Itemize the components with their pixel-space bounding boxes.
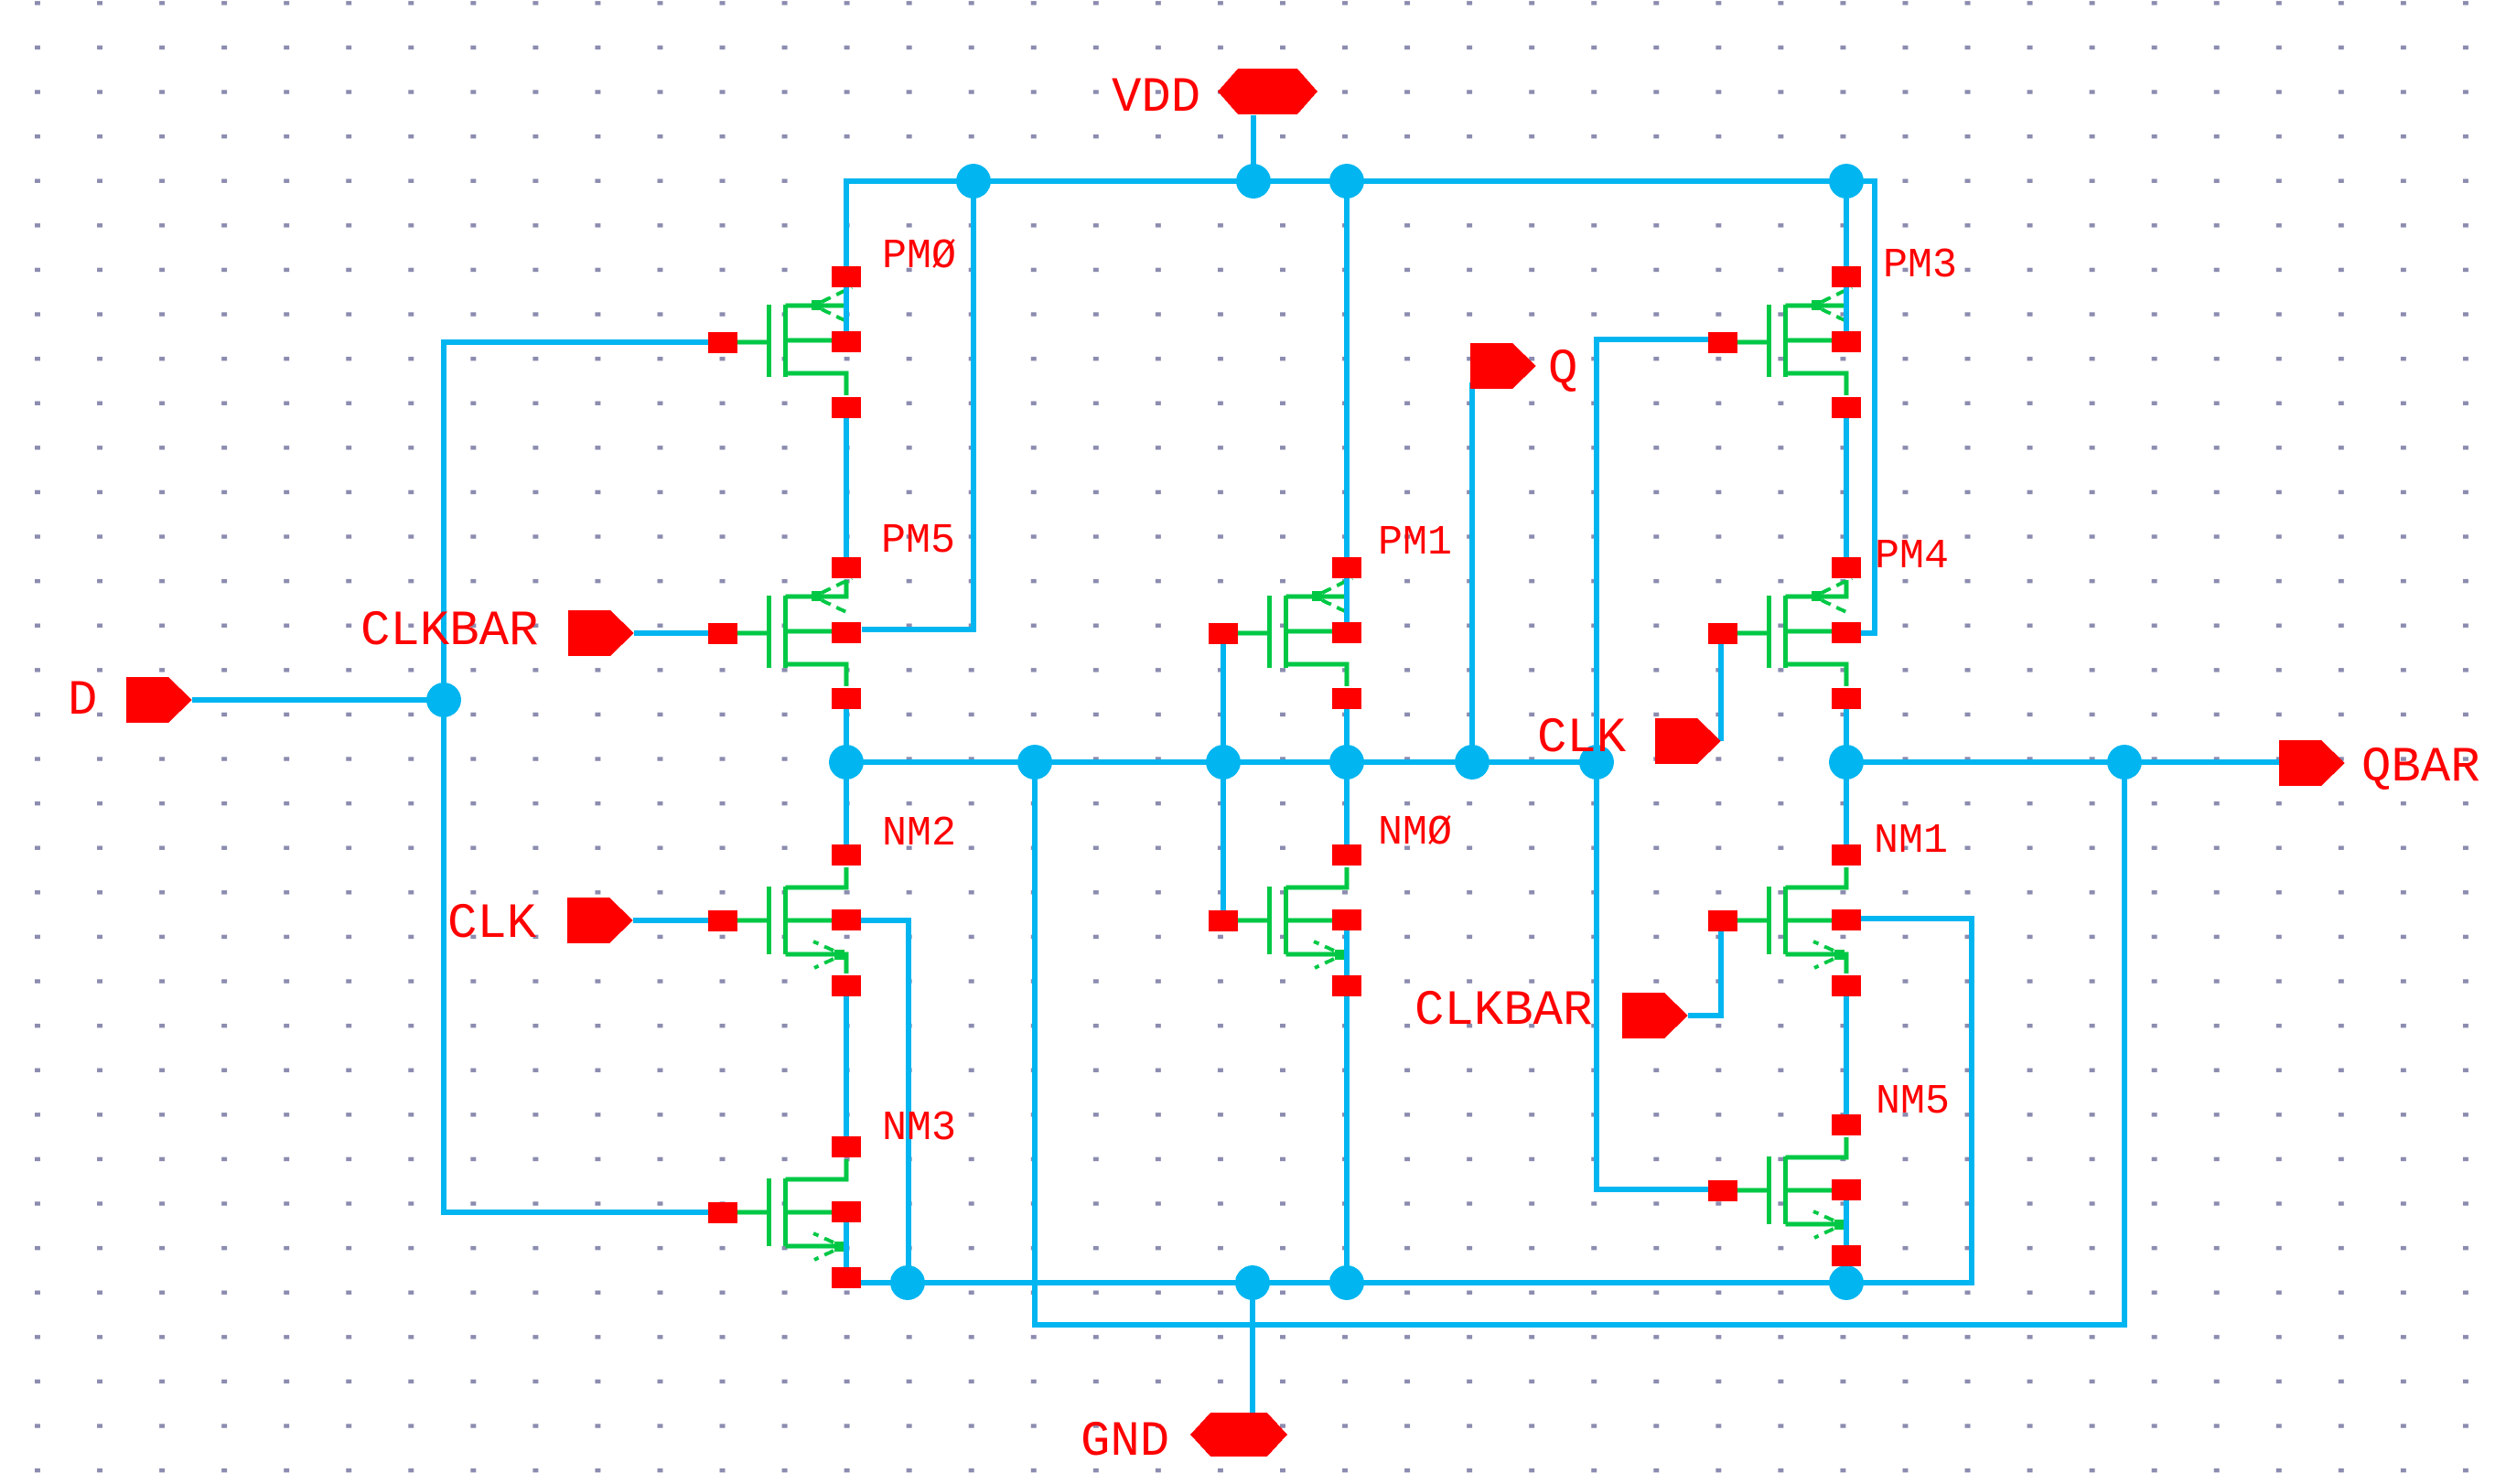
wire QBAR feedback loop xyxy=(1035,762,2124,1325)
wire D pin to node D xyxy=(192,697,444,703)
svg-text:PM1: PM1 xyxy=(1378,520,1452,566)
junction ground bus GND stub xyxy=(1235,1265,1270,1300)
svg-text:CLKBAR: CLKBAR xyxy=(360,604,538,660)
wire VDD stub xyxy=(1251,115,1256,181)
transistor NM5 symbol xyxy=(1737,1137,1846,1243)
transistor PM3 pin squares xyxy=(1708,266,1861,418)
pin CLKBAR left xyxy=(568,610,634,656)
wire QBAR bus to NM1 drain xyxy=(1844,762,1849,855)
wire NM0 bulk and source to ground bus xyxy=(1344,920,1350,1283)
svg-text:CLKBAR: CLKBAR xyxy=(1414,984,1592,1039)
transistor PM3 symbol xyxy=(1737,287,1852,395)
wire CLK pin to PM4 gate xyxy=(1718,640,1724,741)
wire Q pin to mid bus xyxy=(1469,382,1475,762)
svg-text:VDD: VDD xyxy=(1112,70,1200,126)
wire PM1 gate to mid bus xyxy=(1221,640,1226,762)
junction VDD to PM3 xyxy=(1829,164,1864,199)
wire PM0 drain to PM5 source xyxy=(844,408,849,567)
transistor PM4 symbol xyxy=(1737,578,1852,686)
wire mid bus to NM0 drain xyxy=(1344,762,1350,855)
transistor PM1 symbol xyxy=(1238,578,1352,686)
wire mid bus to NM2 drain xyxy=(844,762,849,855)
pin D xyxy=(126,677,192,723)
junction ground bus NM5 source xyxy=(1829,1265,1864,1300)
junction mid bus left xyxy=(829,745,864,780)
wire mid bus xyxy=(846,759,1597,765)
wire PM3 drain to PM4 source xyxy=(1844,408,1849,567)
wire VDD rail with end drops xyxy=(846,181,1875,633)
pin CLK left xyxy=(567,898,633,943)
junction mid bus feedback xyxy=(1017,745,1052,780)
svg-text:NMØ: NMØ xyxy=(1378,810,1452,856)
pin VDD xyxy=(1218,69,1318,114)
wire CLK pin to NM2 gate xyxy=(633,918,708,923)
transistor NM2 symbol xyxy=(737,867,846,973)
wire VDD to PM3 source and bulk xyxy=(1844,181,1849,342)
pin CLKBAR right xyxy=(1622,993,1688,1038)
wire ground bus with right riser to NM1 bulk xyxy=(846,919,1972,1283)
transistor NM1 pin squares xyxy=(1708,844,1861,996)
svg-text:PMØ: PMØ xyxy=(882,233,956,280)
svg-text:CLK: CLK xyxy=(447,897,537,952)
svg-text:PM3: PM3 xyxy=(1883,242,1957,289)
transistor PM5 symbol xyxy=(737,578,852,686)
transistor NM0 symbol xyxy=(1238,867,1347,973)
wire CLKBAR pin to NM1 gate xyxy=(1688,931,1721,1016)
wire mid bus to NM0 gate xyxy=(1221,762,1226,910)
svg-text:D: D xyxy=(68,673,97,729)
wire NM1 source to NM5 drain xyxy=(1844,986,1849,1124)
wire GND stub xyxy=(1250,1283,1255,1414)
pin CLK right xyxy=(1655,718,1721,764)
junction QBAR feedback xyxy=(2107,745,2142,780)
svg-text:NM3: NM3 xyxy=(882,1105,956,1152)
transistor NM0 pin squares xyxy=(1209,844,1361,996)
wire CLKBAR pin to PM5 gate xyxy=(634,630,708,636)
junction ground bus NM0 source xyxy=(1329,1265,1364,1300)
wire QBAR bus xyxy=(1846,759,2279,765)
wire net D vertical with gate arms xyxy=(444,342,708,1212)
transistor NM5 pin squares xyxy=(1708,1114,1861,1266)
svg-text:NM5: NM5 xyxy=(1876,1079,1950,1125)
pin QBAR xyxy=(2279,740,2345,786)
junction VDD to PM5 bulk xyxy=(956,164,991,199)
junction QBAR bus left xyxy=(1829,745,1864,780)
svg-text:CLK: CLK xyxy=(1537,711,1627,767)
junction node D xyxy=(426,683,461,717)
pin Q xyxy=(1470,343,1536,389)
svg-text:PM5: PM5 xyxy=(881,518,955,565)
transistor PM4 pin squares xyxy=(1708,557,1861,709)
wire NM3 bulk to source xyxy=(844,1212,849,1278)
wire NM2 source to NM3 drain xyxy=(844,986,849,1146)
transistor PM0 pin squares xyxy=(708,266,861,418)
junction mid bus Q xyxy=(1455,745,1490,780)
wire NM5 bulk to source xyxy=(1844,1190,1849,1256)
transistor PM5 pin squares xyxy=(708,557,861,709)
wire PM4 drain to QBAR bus xyxy=(1844,699,1849,762)
transistor NM2 pin squares xyxy=(708,844,861,996)
svg-text:PM4: PM4 xyxy=(1875,533,1949,580)
wire NM2 bulk to ground bus xyxy=(861,920,909,1283)
transistor NM1 symbol xyxy=(1737,867,1846,973)
transistor NM3 pin squares xyxy=(708,1136,861,1288)
wire PM5 drain to mid bus xyxy=(844,699,849,762)
wire PM1 drain to mid bus xyxy=(1344,699,1350,762)
svg-text:Q: Q xyxy=(1548,342,1577,398)
transistor PM1 pin squares xyxy=(1209,557,1361,709)
wire right stack input PM3 gate to NM5 gate xyxy=(1597,339,1708,1189)
svg-text:NM2: NM2 xyxy=(882,811,956,857)
svg-text:NM1: NM1 xyxy=(1874,818,1948,865)
junction VDD stub xyxy=(1236,164,1271,199)
svg-text:QBAR: QBAR xyxy=(2361,740,2480,796)
junction ground bus NM2 bulk xyxy=(890,1265,925,1300)
transistor PM0 symbol xyxy=(737,287,852,395)
svg-text:GND: GND xyxy=(1081,1414,1169,1470)
wire VDD to PM5 bulk xyxy=(862,181,973,629)
transistor NM3 symbol xyxy=(737,1159,846,1265)
pin GND xyxy=(1190,1413,1287,1457)
junction VDD to PM1 xyxy=(1329,164,1364,199)
junction mid bus PM1 gate xyxy=(1206,745,1241,780)
junction mid bus right xyxy=(1579,745,1614,780)
junction mid bus PM1 drain xyxy=(1329,745,1364,780)
wire VDD to PM1 source and bulk xyxy=(1344,181,1350,629)
